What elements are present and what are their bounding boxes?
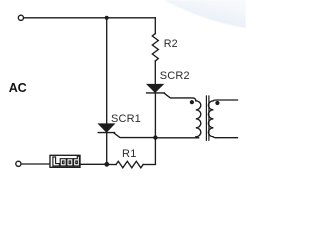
wire load to junction — [80, 163, 107, 165]
resistor R2 — [152, 34, 158, 62]
wire secondary top lead — [213, 99, 237, 102]
wire bottom rail to load — [21, 163, 50, 165]
SCR2 — [147, 85, 165, 93]
wire SCR2 gate to transformer primary top — [164, 93, 196, 101]
svg-text:R1: R1 — [122, 148, 137, 160]
decorative background swoosh — [163, 0, 246, 28]
transformer polarity dot primary — [190, 100, 194, 104]
wire SCR1 cathode down — [106, 133, 108, 165]
svg-text:R2: R2 — [164, 38, 178, 50]
svg-text:SCR2: SCR2 — [160, 70, 190, 82]
transformer secondary winding — [208, 101, 216, 138]
load box — [50, 155, 80, 167]
wire top rail — [24, 17, 156, 19]
node bottom junction — [104, 162, 109, 167]
node top junction — [105, 16, 109, 20]
wire junction to R1 — [107, 164, 116, 166]
wire secondary bottom lead — [216, 137, 238, 139]
wire top-right corner lead into R2 — [154, 18, 156, 34]
resistor R1 — [116, 161, 143, 168]
wire SCR1 gate — [114, 133, 155, 138]
terminal top-left — [18, 15, 23, 20]
transformer polarity dot secondary — [215, 101, 219, 105]
terminal bottom-left — [16, 161, 21, 166]
wire transformer primary bottom lead — [155, 137, 198, 139]
SCR1 — [98, 124, 114, 133]
node junction SCR2 cathode / gate / transformer — [153, 135, 157, 139]
label Load (hollow block letters) — [53, 156, 80, 166]
transformer primary winding — [196, 101, 201, 138]
wire main vertical upper (to SCR1 anode) — [106, 18, 108, 124]
svg-text:AC: AC — [9, 81, 27, 95]
transformer core — [206, 96, 209, 140]
wire R2 to SCR2 anode — [154, 61, 156, 85]
wire R1 to SCR2 cathode rail — [143, 164, 155, 166]
svg-text:SCR1: SCR1 — [111, 113, 141, 125]
wire SCR2 cathode down to bottom rail — [154, 93, 156, 164]
